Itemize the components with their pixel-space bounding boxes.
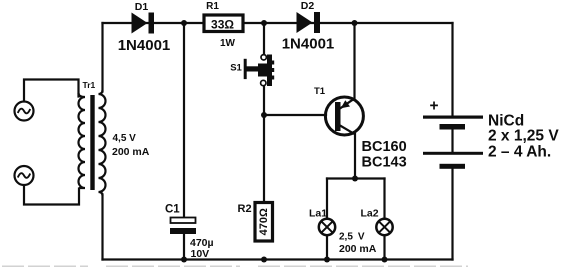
svg-text:BC160: BC160 (362, 139, 407, 155)
resistor R1 (204, 15, 243, 32)
transistor T1 (325, 97, 363, 135)
wire C1 branch upper (183, 23, 185, 218)
svg-text:4,5 V: 4,5 V (113, 133, 137, 144)
svg-text:1N4001: 1N4001 (118, 37, 171, 54)
battery NiCd cell 2 short plate (440, 164, 466, 169)
wire La2 upper (383, 179, 385, 219)
wire secondary bottom to bottom rail (101, 195, 103, 260)
svg-text:D1: D1 (135, 1, 149, 13)
svg-text:200 mA: 200 mA (112, 146, 150, 158)
svg-text:2 – 4 Ah.: 2 – 4 Ah. (488, 144, 551, 161)
wire base of T1 (264, 114, 326, 116)
battery NiCd cell 2 long plate (423, 152, 483, 155)
wire S1 branch from top rail (263, 23, 265, 55)
svg-text:BC143: BC143 (362, 155, 407, 171)
svg-text:2,5 V: 2,5 V (339, 232, 365, 243)
svg-text:R2: R2 (238, 203, 252, 215)
svg-text:1N4001: 1N4001 (282, 36, 335, 53)
svg-text:470Ω: 470Ω (258, 208, 270, 235)
wire T1 emitter to top rail (353, 23, 355, 99)
AC source 2 (15, 166, 34, 185)
wire La1 upper (326, 179, 328, 219)
AC source 1 (15, 102, 34, 121)
wire bottom rail (103, 258, 453, 260)
diode D2 (297, 12, 321, 33)
wire T1 collector down (354, 134, 356, 179)
wire AC source 1 to primary top (24, 80, 79, 102)
svg-text:La2: La2 (361, 208, 379, 220)
junction bottom rail / R2 (261, 257, 267, 263)
transformer Tr1 core (90, 95, 94, 190)
lamp La1 (319, 219, 335, 235)
lamp La2 (376, 219, 392, 235)
wire top rail (103, 22, 453, 24)
svg-text:1W: 1W (220, 38, 236, 49)
svg-text:R1: R1 (206, 1, 219, 12)
wire battery bottom to bottom rail (451, 169, 453, 260)
wire lamp rail (327, 177, 385, 179)
svg-text:10V: 10V (191, 248, 210, 260)
svg-text:+: + (429, 98, 438, 115)
switch S1 (244, 55, 274, 87)
wire battery inter-cell link (451, 129, 453, 152)
diode D1 (132, 13, 155, 34)
transformer Tr1 secondary winding (99, 90, 106, 196)
svg-text:2 x 1,25 V: 2 x 1,25 V (488, 128, 559, 145)
wire AC source 2 to primary bottom (24, 186, 79, 205)
junction bottom rail / C1 (181, 257, 187, 263)
svg-text:D2: D2 (301, 0, 315, 12)
svg-text:Tr1: Tr1 (83, 80, 96, 90)
wire C1 branch lower (183, 234, 185, 260)
junction top rail / C1 (181, 20, 187, 26)
svg-text:33Ω: 33Ω (211, 18, 234, 32)
wire left vertical from secondary top to top rail (101, 23, 103, 92)
wire right vertical from top rail down to battery + (451, 23, 453, 116)
svg-text:S1: S1 (230, 63, 242, 74)
junction collector / lamp rail (352, 176, 358, 182)
wire S1 to R2 (263, 87, 265, 202)
junction bottom rail / La2 (382, 257, 388, 263)
battery NiCd cell 1 short plate (440, 124, 466, 130)
svg-text:C1: C1 (165, 204, 180, 216)
svg-text:La1: La1 (309, 208, 327, 220)
junction base node (261, 112, 267, 118)
wire La1 lower (326, 236, 328, 260)
svg-text:T1: T1 (314, 86, 326, 97)
transformer Tr1 primary winding (79, 93, 86, 188)
battery NiCd cell 1 long plate (423, 116, 483, 119)
capacitor C1 (170, 218, 196, 235)
svg-text:200 mA: 200 mA (339, 243, 377, 255)
resistor R2 (255, 203, 273, 242)
junction bottom rail / La1 (324, 257, 330, 263)
junction top rail / T1 emitter (352, 20, 358, 26)
junction top rail / S1 (261, 20, 267, 26)
wire La2 lower (383, 236, 385, 260)
